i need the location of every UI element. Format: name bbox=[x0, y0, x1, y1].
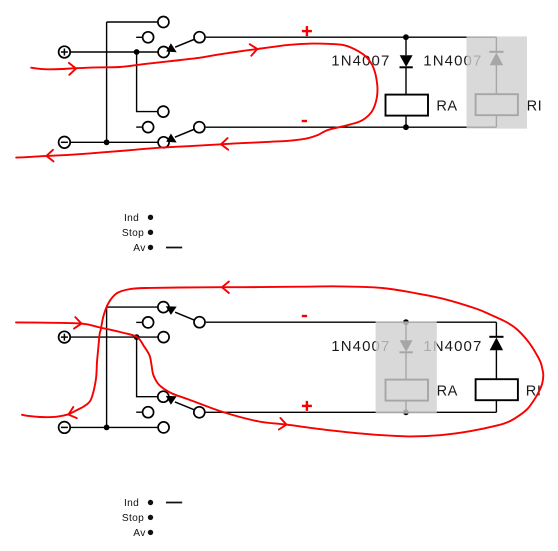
wire: S1 NC stub bbox=[136, 36, 143, 38]
svg-text:RA: RA bbox=[437, 384, 458, 400]
flow arrow 8 (bottom circuit, down-left end) bbox=[69, 407, 77, 418]
contact S1 NC bbox=[143, 32, 154, 43]
svg-text:RA: RA bbox=[436, 99, 457, 115]
contact S4 pole bbox=[194, 407, 205, 418]
contact S3 NC bbox=[143, 317, 154, 328]
contact S2 common bbox=[158, 137, 169, 148]
wire: - rail bbox=[206, 126, 497, 128]
relay coil RI bbox=[476, 94, 518, 127]
polarity label + bbox=[302, 26, 312, 36]
contact S3 pole bbox=[194, 317, 205, 328]
flow arrow 6 (bottom circuit, rightward bottom) bbox=[279, 418, 287, 430]
svg-text:Ind: Ind bbox=[124, 213, 139, 224]
contact S1 common bbox=[158, 47, 169, 58]
wire: top L to S3 NO contact bbox=[107, 306, 164, 308]
flow arrow 5 (bottom circuit, rightward start) bbox=[74, 317, 82, 329]
diode D2 1N4007 (RI branch) bbox=[489, 37, 503, 94]
node B junction dot bbox=[104, 139, 110, 145]
node E junction dot bbox=[134, 334, 140, 340]
flow arrow 4 (top circuit, leftward) bbox=[46, 150, 53, 162]
switch arm S1 bbox=[166, 40, 194, 53]
svg-text:Av: Av bbox=[133, 528, 146, 539]
diode D1 1N4007 (RA branch) bbox=[400, 37, 413, 94]
flow arrow 7 (bottom circuit, leftward top) bbox=[222, 282, 229, 294]
wire: + terminal to switch S3 common bbox=[70, 336, 163, 338]
wire: left vertical bus (bottom circuit) bbox=[106, 307, 108, 427]
wire: top L to S1 NO contact bbox=[107, 21, 164, 23]
legend 1 Av dot bbox=[148, 245, 153, 250]
terminal - (bottom circuit) bbox=[59, 422, 71, 434]
legend 2 Stop dot bbox=[148, 515, 153, 520]
switch arm S4 (closed to NO) bbox=[166, 396, 194, 410]
wire: branch from node A to S2 NO contact bbox=[137, 52, 164, 112]
relay coil RI (bottom circuit) bbox=[476, 379, 518, 412]
svg-text:Ind: Ind bbox=[124, 498, 139, 509]
contact S2 NC bbox=[143, 122, 154, 133]
diode D3 1N4007 (RA branch, bottom circuit) bbox=[400, 322, 413, 379]
legend 2 Av dot bbox=[148, 530, 153, 535]
flow arrow 3 (top circuit, leftward) bbox=[221, 138, 228, 150]
disabled branch overlay (RA grayed) bbox=[376, 321, 437, 413]
svg-text:Stop: Stop bbox=[122, 513, 144, 524]
contact S3 NO bbox=[158, 302, 169, 313]
relay coil RA (bottom circuit) bbox=[386, 380, 429, 413]
node H junction dot (bottom rail / relay RA) bbox=[403, 409, 409, 415]
wire: + terminal to switch S1 common bbox=[70, 51, 163, 53]
terminal + bbox=[59, 46, 71, 58]
switch arm S3 (closed to NO) bbox=[166, 306, 194, 320]
polarity label - (top rail) bbox=[302, 315, 307, 317]
current path loop (bottom circuit) bbox=[16, 286, 543, 436]
node G junction dot (top rail / diode D3) bbox=[403, 319, 409, 325]
diode D4 1N4007 (RI branch, bottom circuit) bbox=[489, 322, 503, 379]
node A junction dot bbox=[134, 49, 140, 55]
wire: S2 NC stub bbox=[136, 126, 143, 128]
contact S2 pole bbox=[194, 122, 205, 133]
contact S2 NO bbox=[158, 106, 169, 117]
svg-text:Stop: Stop bbox=[122, 228, 144, 239]
wire: S3 NC stub bbox=[136, 321, 143, 323]
node F junction dot bbox=[104, 425, 110, 431]
legend 2 Ind state dash bbox=[166, 502, 182, 504]
wire: - terminal to switch S4 common bbox=[70, 426, 163, 428]
contact S1 pole bbox=[194, 32, 205, 43]
flow arrow 2 (top circuit, rightward) bbox=[250, 44, 258, 56]
polarity label - bbox=[302, 120, 307, 122]
node C junction dot (+ rail / diode D1) bbox=[403, 34, 409, 40]
legend 1 Ind dot bbox=[148, 215, 153, 220]
wire: bottom rail (positive) bbox=[206, 411, 497, 413]
contact S4 NO bbox=[158, 391, 169, 402]
svg-text:RI: RI bbox=[527, 99, 543, 115]
current path loop (top circuit) bbox=[16, 44, 377, 158]
wire: + rail bbox=[206, 36, 497, 38]
disabled branch overlay (RI grayed) bbox=[467, 36, 528, 128]
legend 1 Stop dot bbox=[148, 230, 153, 235]
svg-text:Av: Av bbox=[133, 243, 146, 254]
contact S4 common bbox=[158, 422, 169, 433]
node D junction dot (- rail / relay RA) bbox=[403, 124, 409, 130]
wire: - terminal to switch S2 common bbox=[70, 141, 163, 143]
terminal + (bottom circuit) bbox=[59, 331, 71, 343]
wire: top rail (negative) bbox=[206, 321, 497, 323]
legend 1 Av state dash bbox=[166, 247, 182, 249]
wire: branch from node E to S4 NO contact bbox=[137, 337, 164, 397]
contact S3 common bbox=[158, 332, 169, 343]
legend 2 Ind dot bbox=[148, 500, 153, 505]
contact S1 NO bbox=[158, 17, 169, 28]
svg-text:1N4007: 1N4007 bbox=[331, 52, 390, 69]
switch arm S2 bbox=[166, 130, 194, 143]
terminal - bbox=[59, 137, 71, 149]
wire: left vertical bus bbox=[106, 22, 108, 142]
contact S4 NC bbox=[143, 407, 154, 418]
relay coil RA bbox=[386, 95, 429, 128]
wire: S4 NC stub bbox=[136, 411, 143, 413]
polarity label + (bottom rail) bbox=[302, 401, 312, 411]
flow arrow 1 (top circuit, rightward) bbox=[69, 63, 76, 75]
